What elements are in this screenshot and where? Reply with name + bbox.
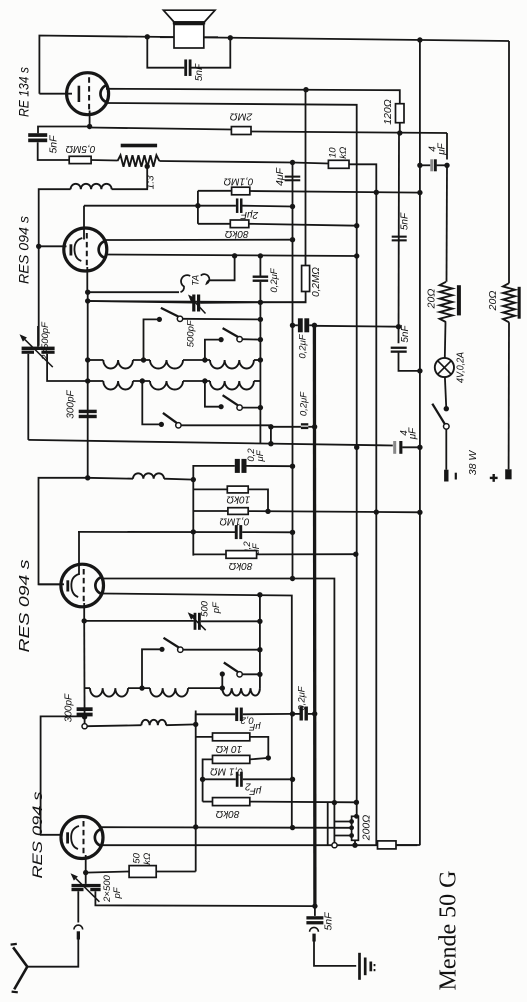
tube V3 RES 094 s: [64, 228, 107, 271]
junction T1 tap: [145, 164, 150, 169]
wire choke to V3 anode column: [39, 189, 71, 346]
junction c3 0.2 right: [290, 711, 295, 716]
junction V3 anode: [36, 244, 41, 249]
capacitor 4uF (anode): [430, 159, 433, 171]
junction rowA t2: [202, 357, 207, 362]
varcap C2 arrow: [76, 879, 99, 902]
capacitor 5nF b: [391, 347, 407, 349]
svg-text:pF: pF: [112, 886, 123, 899]
junction block2 right top: [257, 592, 262, 597]
switch S3: [159, 422, 164, 427]
wire 10k c2 right: [248, 489, 268, 511]
junction 376/192: [374, 190, 379, 195]
svg-text:10kΩ: 10kΩ: [226, 493, 250, 504]
wire tank top rail: [88, 301, 193, 303]
wire V4 grid lead down: [89, 111, 91, 127]
wire top rail (V4 anode to speaker and battery rail): [39, 36, 509, 94]
junction 4uF bot l: [354, 445, 359, 450]
switch S6: [220, 671, 225, 676]
svg-text:20Ω: 20Ω: [425, 289, 437, 310]
resistor 0.5M: [69, 156, 91, 163]
svg-text:300pF: 300pF: [64, 693, 75, 722]
wire C1 top lead: [37, 326, 39, 347]
junction speaker right: [228, 35, 233, 40]
svg-text:0,2μF: 0,2μF: [297, 333, 308, 358]
junction 80k c2 right: [353, 552, 358, 557]
trimmer 500pF arrow: [193, 300, 205, 313]
junction 10k c2 right: [265, 509, 270, 514]
svg-text:5nF: 5nF: [322, 912, 334, 931]
svg-text:80kΩ: 80kΩ: [225, 228, 249, 239]
wire 80k c2 right: [257, 553, 356, 555]
svg-text:4μF: 4μF: [274, 167, 286, 186]
junction rowA right: [258, 357, 263, 362]
junction grid/tank: [85, 290, 90, 295]
junction V3 fil upper end: [290, 237, 295, 242]
wire thick bus (chassis): [313, 325, 317, 906]
junction mid1 left: [268, 424, 273, 429]
junction chassis bottom: [312, 903, 317, 908]
capacitor 0.2uF mid2: [300, 707, 303, 721]
wire 2uF line: [84, 205, 236, 207]
wire 398 vertical: [398, 133, 401, 343]
wire 120R bottom: [399, 123, 401, 133]
wire speaker right lead: [192, 38, 231, 68]
speaker LS: [163, 10, 215, 22]
resistor 120R: [396, 104, 405, 123]
junction V2 top bus: [191, 529, 196, 534]
switch S main: [444, 406, 449, 411]
transformer T1 core: [121, 144, 157, 148]
junction 2uF right: [290, 204, 295, 209]
wire anode node left: [39, 478, 88, 585]
junction V4 grid: [87, 124, 92, 129]
wire 5nF to 0.5M: [38, 142, 69, 160]
svg-text:μF: μF: [249, 785, 262, 796]
wire V2 grid line right: [84, 620, 193, 622]
wire bus top to 5nF line: [314, 325, 398, 328]
switch S2: [219, 337, 224, 342]
wire c2b right: [242, 531, 292, 533]
wire c2 bus: [192, 480, 194, 556]
wire V3 grid down: [87, 267, 179, 292]
wire 0.1M c1 left: [198, 190, 232, 192]
wire 2uF c1 right: [243, 205, 293, 208]
svg-text:pF: pF: [211, 601, 222, 614]
junction 200R bottom: [352, 843, 357, 848]
wire V3 filament upper: [105, 239, 293, 241]
wire S3 tap: [142, 381, 161, 424]
junction 4uF left: [417, 163, 422, 168]
resistor 80k c1: [230, 220, 249, 228]
wire c3 up to 0.2uF: [196, 714, 236, 724]
junction rowC t1: [139, 685, 144, 690]
junction rowA t1: [141, 357, 146, 362]
wire 20R left top: [446, 165, 449, 281]
wire S4 contact: [242, 407, 260, 409]
wire 5nF gnd top: [314, 906, 316, 916]
switch S5: [159, 647, 164, 652]
resistor 0.2M: [302, 266, 310, 292]
capacitor 0.2uF c2b: [235, 525, 238, 539]
wire lamp to switch: [445, 377, 446, 409]
junction 80k c3 356: [354, 800, 359, 805]
label plus: [490, 477, 498, 479]
wire V2 anode lead: [39, 583, 63, 585]
wire 80k c3 left: [203, 801, 213, 803]
wire V4 anode lead: [39, 93, 72, 95]
wire speaker box left: [160, 36, 174, 38]
wire 0.1M c2 right: [248, 511, 420, 512]
wire 50k right: [156, 871, 196, 873]
wire 0.2M feed vertical: [305, 90, 307, 266]
junction block1 right top: [258, 253, 263, 258]
junction S5 right: [257, 647, 262, 652]
jack TA left: [181, 275, 191, 292]
wire 0.1M c3 left: [203, 759, 213, 801]
wire bottom rail long: [28, 440, 393, 446]
choke L2: [133, 473, 164, 478]
svg-text:10: 10: [328, 147, 339, 158]
resistor 10k (bias): [328, 160, 349, 168]
terminal ring b2: [82, 724, 87, 729]
junction 200R top: [354, 814, 359, 819]
wire S2 contact: [242, 338, 260, 340]
choke L1 (V3 anode): [71, 184, 112, 189]
coil row C: [85, 687, 90, 689]
wire T1 tap to choke: [112, 166, 148, 189]
junction c2: [191, 477, 196, 482]
junction 5nF line: [396, 324, 401, 329]
junction 10k c3 right: [266, 755, 271, 760]
wire V4 grid line right to 2M: [90, 128, 232, 130]
svg-text:20Ω: 20Ω: [487, 291, 499, 312]
junction tank rail: [85, 298, 90, 303]
tube V4 RE 134 s: [67, 73, 109, 115]
resistor 80k c2: [226, 551, 257, 559]
resistor 20R right: [503, 283, 515, 322]
wire antenna lead: [27, 940, 78, 967]
wire 0.2uF mid1 leads: [271, 426, 301, 428]
svg-text:5nF: 5nF: [47, 135, 59, 154]
svg-text:4V,0,2A: 4V,0,2A: [456, 352, 467, 383]
wire tap2: [350, 827, 353, 829]
svg-text:0,2MΩ: 0,2MΩ: [311, 267, 322, 297]
svg-text:μF: μF: [408, 427, 419, 440]
wire mid2 leads: [293, 713, 300, 715]
wire 2M right to 120R junction: [251, 132, 447, 134]
svg-text:RES 094 s: RES 094 s: [17, 560, 33, 653]
tube V2 RES 094 s: [61, 564, 104, 607]
ground symbol: [358, 953, 361, 980]
wire C2 ground tail: [95, 891, 315, 906]
wire 200R bottom: [354, 840, 356, 845]
svg-text:Mende 50 G: Mende 50 G: [436, 871, 462, 991]
capacitor 4uF grid: [285, 176, 301, 178]
wire 0.1M c2 left: [193, 510, 228, 512]
tap 200R 1: [349, 819, 354, 824]
wire tank rail right: [200, 301, 305, 304]
svg-text:120Ω: 120Ω: [382, 99, 394, 125]
resistor R (box) bottom: [378, 841, 397, 849]
svg-text:0,2μF: 0,2μF: [299, 391, 310, 416]
svg-text:kΩ: kΩ: [142, 853, 153, 865]
resistor 20R left: [440, 282, 453, 322]
trimmer 500pF block1: [192, 295, 195, 312]
battery minus terminal: [444, 470, 448, 482]
wire T1 right to 10k line: [159, 161, 292, 163]
junction 2uF c3 bus: [200, 777, 205, 782]
plug gnd: [310, 927, 319, 931]
wire switch to minus: [445, 429, 447, 470]
capacitor 2uF c1: [236, 198, 239, 213]
junction 370.9: [417, 368, 422, 373]
coil row B: [88, 380, 104, 382]
svg-text:5nF: 5nF: [400, 324, 411, 342]
svg-text:μF: μF: [437, 142, 448, 155]
wire V2 filament lower: [102, 594, 292, 828]
resistor 50k: [129, 866, 156, 878]
capacitor 300pF b1: [79, 410, 97, 413]
wire short vert 327: [327, 802, 329, 845]
svg-text:80kΩ: 80kΩ: [215, 808, 239, 819]
wire S6 tap: [221, 674, 223, 688]
wire S6 contact: [242, 673, 260, 675]
resistor 10k c2: [227, 486, 248, 493]
svg-text:2×500pF: 2×500pF: [40, 321, 51, 361]
wire anode node to choke: [88, 477, 133, 480]
junction V1 grid: [83, 870, 88, 875]
wire 80k c1 left: [198, 223, 230, 225]
svg-text:38 W: 38 W: [467, 450, 479, 476]
svg-text:500: 500: [200, 600, 211, 617]
svg-text:200Ω: 200Ω: [360, 815, 372, 842]
junction 0.1M c2 376: [374, 509, 379, 514]
wire b2 left vertical: [83, 621, 85, 724]
junction 0.1M c1 rail: [417, 190, 422, 195]
capacitor 2uF c3: [236, 772, 239, 787]
wire 80k c3 right: [250, 801, 357, 804]
wire 10k line: [293, 163, 329, 164]
coil row A: [88, 359, 104, 361]
wire TA right: [210, 256, 235, 280]
svg-text:2μF: 2μF: [240, 209, 259, 220]
svg-text:0,2μF: 0,2μF: [269, 267, 280, 292]
wire 20R to lamp: [444, 322, 447, 358]
svg-text:TA: TA: [191, 275, 201, 286]
wire V2 filament upper: [102, 579, 334, 846]
resistor 80k c3: [213, 798, 250, 806]
lamp 4V 0.2A: [435, 358, 454, 377]
wire R box right: [396, 844, 420, 846]
wire V2 grid down: [83, 603, 85, 621]
junction b2 rail right: [257, 619, 262, 624]
variable capacitor C2 2x500pF: [72, 884, 101, 887]
svg-text:50: 50: [132, 852, 143, 863]
wire 133 line to 4uF: [446, 133, 448, 160]
wire choke to c2: [164, 478, 193, 481]
svg-text:μF: μF: [255, 449, 266, 462]
junction S1 right: [258, 317, 263, 322]
wire speaker left lead: [147, 37, 184, 68]
wire 80k c1 right: [249, 224, 357, 226]
wire S3 contact: [181, 425, 271, 443]
wire C2 top lead: [85, 873, 87, 884]
wire 10k c3 left: [196, 736, 213, 738]
wire b1 right vertical: [259, 256, 261, 276]
svg-text:80kΩ: 80kΩ: [228, 560, 252, 571]
wire V1 filament upper: [102, 826, 351, 829]
wire V4 filament upper rail: [106, 89, 400, 104]
wire c1 bus: [197, 191, 199, 224]
svg-text:0,2μF: 0,2μF: [297, 685, 308, 710]
transformer T1 winding: [118, 155, 160, 167]
junction 80k c3 334: [332, 800, 337, 805]
svg-text:5nF: 5nF: [399, 212, 410, 230]
resistor 2M: [231, 127, 251, 135]
switch S4: [219, 404, 224, 409]
junction 0.1M c2 420: [417, 510, 422, 515]
wire 20R right to plus: [508, 322, 510, 469]
wire battery rail vertical: [419, 40, 421, 845]
junction 0.2uF l: [290, 323, 295, 328]
capacitor 0.2uF mid1: [301, 423, 308, 425]
svg-text:μF: μF: [248, 721, 261, 732]
junction V1 anode node: [82, 714, 87, 719]
capacitor 5nF gnd: [306, 916, 323, 919]
resistor 0.1M c2: [228, 508, 248, 515]
wire S2 tap: [205, 340, 221, 360]
junction battery rail top: [417, 37, 422, 42]
capacitor 0.2uF c2a: [235, 459, 240, 473]
resistor 0.1M c1: [232, 187, 250, 195]
junction c2a right: [290, 464, 295, 469]
wire tap1: [334, 821, 351, 823]
junction rowB t2: [202, 378, 207, 383]
label minus: [455, 473, 457, 480]
wire 5nF b bottom: [399, 353, 420, 371]
resistor 200R: [352, 816, 359, 840]
wire 0.2uF top leads: [293, 324, 298, 326]
wire V1 anode lead: [41, 716, 85, 834]
junction filament upper: [303, 87, 308, 92]
wire S5 tap: [142, 649, 162, 688]
plug antenna: [74, 925, 83, 929]
tap 200R 2: [349, 825, 354, 830]
svg-text:0,5MΩ: 0,5MΩ: [65, 143, 95, 154]
trimmer 500pF block2: [194, 613, 197, 630]
wire 2uF c3 right: [243, 778, 293, 780]
svg-text:0,1MΩ: 0,1MΩ: [219, 515, 249, 526]
junction 0.2uF r (bus top): [312, 323, 317, 328]
svg-text:300pF: 300pF: [66, 389, 77, 418]
wire long vertical 376: [375, 192, 377, 845]
wire 0.1M c1 right: [250, 191, 420, 193]
junction V3 fil lower end: [354, 253, 359, 258]
choke L3: [141, 720, 166, 725]
wire trimmer b2 right: [201, 620, 260, 622]
wire V3 top lead: [83, 206, 85, 240]
varcap C1 arrow: [25, 340, 53, 368]
wire V4 grid line left: [38, 127, 90, 134]
resistor 10k c3: [213, 733, 250, 741]
wire 80k c2 left: [193, 553, 226, 555]
wire 4uF leads: [420, 164, 430, 166]
junction 2uF c3 right: [290, 777, 295, 782]
junction b1 right rail: [258, 300, 263, 305]
wire S4 tap: [205, 381, 221, 407]
wire S1 tap: [144, 319, 160, 360]
wire C1 left line: [27, 354, 29, 440]
junction mid1 right: [312, 424, 317, 429]
capacitor 5nF across speaker: [184, 59, 187, 75]
wire c3 0.2uF right: [243, 713, 293, 715]
wire S5 contact: [183, 649, 260, 651]
wire vertical 292: [292, 163, 294, 579]
junction 50k top: [193, 824, 198, 829]
capacitor 300pF b2: [77, 707, 93, 711]
svg-text:2MΩ: 2MΩ: [230, 111, 254, 123]
junction 120R bottom: [397, 130, 402, 135]
wire 0.5M to transformer: [91, 159, 117, 162]
junction S2 right: [258, 337, 263, 342]
wire choke L3 right: [166, 723, 196, 726]
svg-text:0,1MΩ: 0,1MΩ: [223, 175, 253, 186]
wire 10k right down: [349, 164, 376, 192]
svg-text:5nF: 5nF: [194, 63, 205, 81]
junction rowB t1: [140, 378, 145, 383]
wire 0.2M bottom to tank rail: [88, 292, 306, 303]
wire V1 grid down: [85, 855, 87, 873]
junction S3 join: [268, 441, 273, 446]
junction c2b right: [290, 530, 295, 535]
variable capacitor C1 2x500pF: [22, 347, 55, 350]
capacitor 0.2uF c3: [235, 708, 238, 722]
junction rowB left: [85, 378, 90, 383]
capacitor 4uF bot: [393, 441, 396, 454]
junction 10k line left: [290, 160, 295, 165]
wire 10k c2 left: [193, 488, 227, 490]
junction V2 anode node: [85, 475, 90, 480]
wire c3 bus: [195, 711, 197, 872]
wire speaker box right: [204, 36, 218, 38]
junction S4 right: [258, 405, 263, 410]
svg-text:kΩ: kΩ: [338, 147, 349, 159]
svg-text:10 kΩ: 10 kΩ: [215, 743, 242, 754]
wire right edge rail down to 20ohm: [508, 41, 510, 283]
svg-text:RE 134 s: RE 134 s: [17, 67, 32, 117]
switch S1: [157, 317, 162, 322]
wire V1 filament lower (rail): [102, 844, 418, 846]
wire 2uF c3 left: [203, 778, 236, 780]
junction c1 bus: [195, 203, 200, 208]
wire b2 right vertical: [259, 595, 261, 688]
wire 0.1M c3 right: [250, 758, 268, 760]
wire 10k c3 right: [250, 737, 268, 758]
wire tank vertical 87.7: [87, 292, 89, 478]
wire V4 filament lower rail: [106, 103, 357, 816]
wire gnd lead: [314, 942, 356, 966]
junction 80k right: [354, 223, 359, 228]
tube V1 RES 094 s: [61, 817, 103, 859]
junction speaker left: [145, 34, 150, 39]
junction 4uF right: [444, 163, 449, 168]
tap 200R 3: [349, 833, 354, 838]
wire S1 contact: [183, 318, 261, 321]
junction mid2 right: [312, 711, 317, 716]
capacitor 0.2uF coupling: [253, 276, 269, 278]
junction V2 grid: [82, 618, 87, 623]
